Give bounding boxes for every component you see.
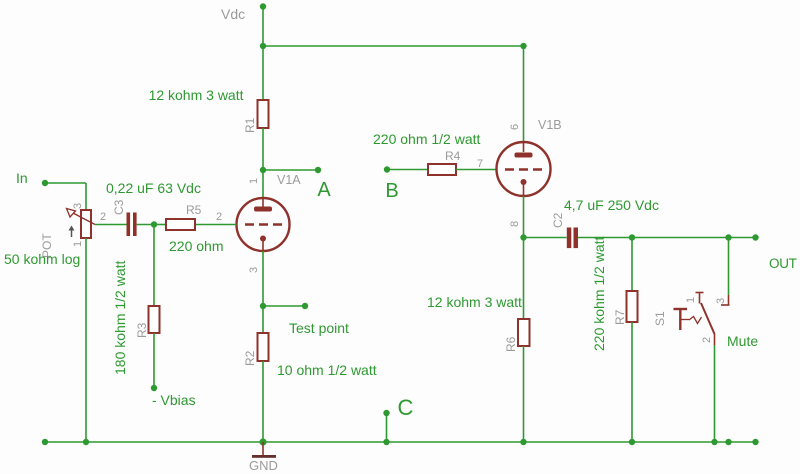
- svg-text:V1B: V1B: [538, 118, 562, 132]
- svg-text:OUT: OUT: [769, 256, 797, 271]
- resistor R1: [258, 100, 269, 128]
- wire cathode to C2: [524, 237, 567, 239]
- ground rail left pin: [42, 439, 48, 445]
- wire C2 to OUT: [578, 237, 756, 239]
- svg-text:R7: R7: [613, 309, 627, 325]
- junction top rail left: [260, 43, 266, 49]
- resistor R3: [149, 306, 160, 333]
- V1B anode: [515, 143, 533, 158]
- svg-text:GND: GND: [249, 458, 278, 473]
- triode V1B envelope: [497, 142, 551, 196]
- node In pin: [42, 180, 48, 186]
- resistor R4: [428, 164, 456, 175]
- triode V1A envelope: [237, 198, 290, 251]
- svg-text:220 ohm 1/2 watt: 220 ohm 1/2 watt: [373, 131, 481, 147]
- wire V1A cathode down: [262, 251, 264, 306]
- wire pot bottom: [85, 238, 87, 442]
- svg-text:C2: C2: [551, 212, 565, 228]
- wire top rail: [263, 45, 524, 47]
- svg-text:220 ohm: 220 ohm: [169, 238, 223, 254]
- svg-text:8: 8: [509, 221, 521, 227]
- svg-text:6: 6: [509, 124, 521, 130]
- resistor R6: [518, 319, 530, 346]
- svg-text:3: 3: [248, 267, 260, 273]
- wire V1A plate: [262, 170, 264, 199]
- wire junction to R5: [154, 224, 166, 226]
- capacitor C2: [567, 228, 578, 249]
- junction GND: [259, 438, 266, 445]
- resistor R2: [258, 333, 269, 361]
- svg-text:1: 1: [72, 241, 84, 247]
- wire R6 bottom: [523, 346, 525, 442]
- resistor R7: [627, 291, 638, 322]
- svg-text:2: 2: [100, 211, 106, 223]
- wire R7 bottom: [631, 322, 633, 442]
- wire R7 top: [631, 238, 633, 292]
- svg-text:4,7 uF 250 Vdc: 4,7 uF 250 Vdc: [564, 197, 659, 213]
- svg-text:S1: S1: [653, 311, 667, 326]
- svg-text:2: 2: [216, 211, 222, 223]
- junction top rail right: [520, 43, 526, 49]
- node C pin: [383, 410, 389, 416]
- svg-text:2: 2: [701, 337, 713, 343]
- wire ground rail: [45, 441, 756, 443]
- test point pin: [302, 303, 308, 309]
- svg-text:C3: C3: [112, 199, 126, 215]
- junction test point: [260, 303, 266, 309]
- svg-text:180 kohm 1/2 watt: 180 kohm 1/2 watt: [112, 260, 128, 375]
- potentiometer POT: [67, 209, 96, 239]
- wire B to R4: [387, 169, 428, 171]
- node Vbias pin: [151, 385, 157, 391]
- junction rail joint: [725, 439, 731, 445]
- svg-text:R5: R5: [186, 203, 202, 217]
- svg-text:C: C: [398, 395, 414, 420]
- wire R3 top: [153, 225, 155, 307]
- svg-text:Mute: Mute: [727, 333, 758, 349]
- svg-text:0,22 uF 63 Vdc: 0,22 uF 63 Vdc: [106, 180, 201, 196]
- junction mute bottom: [711, 439, 717, 445]
- supply pin Vdc: [260, 3, 266, 9]
- svg-text:B: B: [385, 180, 398, 202]
- V1B grid: [505, 168, 542, 171]
- wire R1 bottom: [262, 128, 264, 170]
- wire V1B cathode down: [523, 196, 525, 238]
- junction R3 tap: [151, 221, 157, 227]
- wire Vdc stub: [262, 7, 264, 47]
- svg-text:V1A: V1A: [277, 173, 301, 187]
- svg-text:R2: R2: [243, 350, 257, 366]
- junction pot bottom: [83, 439, 89, 445]
- svg-text:10 ohm 1/2 watt: 10 ohm 1/2 watt: [277, 362, 377, 378]
- svg-text:1: 1: [248, 178, 260, 184]
- wire mute top: [728, 238, 730, 296]
- svg-text:Test point: Test point: [289, 320, 349, 336]
- wire V1B plate column: [523, 46, 525, 143]
- wire R3 bottom: [153, 333, 155, 388]
- svg-text:A: A: [317, 179, 331, 201]
- wire test point stub: [263, 305, 305, 307]
- svg-text:R1: R1: [243, 117, 257, 133]
- node B pin: [384, 166, 390, 172]
- V1B cathode: [521, 179, 527, 196]
- wire R2 bottom: [262, 361, 264, 442]
- wire mute bottom: [714, 345, 716, 442]
- junction R7 top: [629, 234, 635, 240]
- junction V1B cathode: [520, 234, 526, 240]
- wire R1 top: [262, 46, 264, 100]
- svg-text:1: 1: [685, 297, 697, 303]
- svg-text:12 kohm 3 watt: 12 kohm 3 watt: [149, 87, 244, 103]
- V1A cathode: [260, 236, 266, 252]
- node A pin: [315, 167, 321, 173]
- svg-text:220 kohm 1/2 watt: 220 kohm 1/2 watt: [591, 236, 607, 351]
- V1A grid: [245, 223, 282, 226]
- V1A anode: [254, 199, 272, 212]
- ground symbol: [252, 442, 276, 458]
- svg-text:3: 3: [72, 203, 84, 209]
- wire node A stub: [263, 169, 318, 171]
- capacitor C3: [127, 213, 137, 237]
- svg-text:In: In: [16, 170, 28, 186]
- svg-text:7: 7: [477, 158, 483, 170]
- svg-text:R6: R6: [504, 336, 518, 352]
- wire R2 top: [262, 306, 264, 333]
- svg-text:R3: R3: [135, 322, 149, 338]
- junction node C: [383, 439, 389, 445]
- svg-text:Vdc: Vdc: [221, 6, 245, 22]
- svg-text:12 kohm 3 watt: 12 kohm 3 watt: [427, 294, 522, 310]
- svg-text:50 kohm log: 50 kohm log: [4, 251, 80, 267]
- junction R7 bottom: [629, 439, 635, 445]
- wire R6 top: [523, 238, 525, 320]
- svg-text:R4: R4: [445, 149, 461, 163]
- svg-text:3: 3: [715, 298, 727, 304]
- junction mute top: [725, 234, 731, 240]
- wire node C stub: [386, 413, 388, 442]
- switch S1: [674, 293, 730, 346]
- wire pot wiper to C3: [95, 224, 127, 226]
- resistor R5: [166, 219, 195, 230]
- wire pot top: [85, 183, 87, 210]
- wire C3 to junction: [137, 224, 154, 226]
- wire In horizontal: [45, 182, 86, 184]
- junction R6 bottom: [520, 439, 526, 445]
- wire V1A grid pin: [195, 224, 237, 226]
- junction node A: [260, 167, 266, 173]
- wire R4 to grid: [456, 169, 497, 171]
- ground rail right pin: [752, 439, 758, 445]
- svg-text:- Vbias: - Vbias: [152, 392, 196, 408]
- node OUT pin: [752, 234, 758, 240]
